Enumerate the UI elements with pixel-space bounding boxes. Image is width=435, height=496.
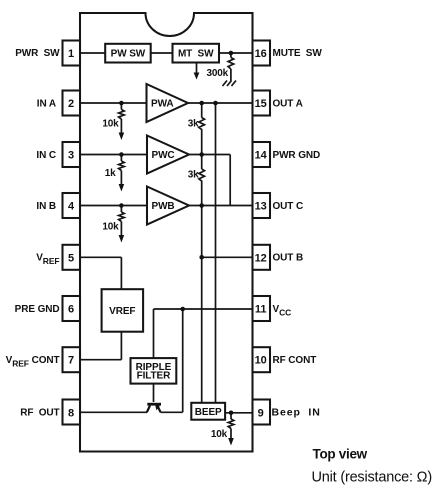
svg-text:3k: 3k xyxy=(188,119,199,130)
svg-text:10: 10 xyxy=(255,355,267,367)
svg-text:5: 5 xyxy=(68,252,74,264)
svg-text:MT SW: MT SW xyxy=(178,49,214,60)
svg-text:14: 14 xyxy=(255,150,268,162)
svg-text:PW SW: PW SW xyxy=(111,49,146,60)
svg-text:IN B: IN B xyxy=(36,201,56,212)
svg-text:VREF: VREF xyxy=(36,253,59,267)
svg-text:8: 8 xyxy=(68,407,74,419)
svg-text:BEEP: BEEP xyxy=(195,407,222,418)
svg-text:16: 16 xyxy=(255,48,267,60)
svg-text:Beep IN: Beep IN xyxy=(272,406,321,418)
svg-text:VREF CONT: VREF CONT xyxy=(6,355,60,369)
svg-text:VCC: VCC xyxy=(273,304,292,318)
svg-text:12: 12 xyxy=(255,252,267,264)
svg-text:6: 6 xyxy=(68,304,74,316)
svg-text:11: 11 xyxy=(255,304,267,316)
svg-text:300k: 300k xyxy=(207,68,229,79)
svg-text:PWR GND: PWR GND xyxy=(273,150,321,161)
svg-text:10k: 10k xyxy=(102,119,119,130)
svg-text:FILTER: FILTER xyxy=(137,371,172,382)
svg-text:10k: 10k xyxy=(211,429,228,440)
svg-text:PWA: PWA xyxy=(151,99,173,110)
svg-text:OUT B: OUT B xyxy=(273,253,304,264)
svg-text:RF OUT: RF OUT xyxy=(20,407,59,418)
svg-text:OUT A: OUT A xyxy=(273,98,303,109)
svg-text:1: 1 xyxy=(68,48,74,60)
svg-text:3k: 3k xyxy=(188,170,199,181)
svg-text:Top view: Top view xyxy=(313,447,368,462)
svg-text:VREF: VREF xyxy=(109,306,135,317)
svg-text:Unit (resistance: Ω): Unit (resistance: Ω) xyxy=(312,469,432,485)
svg-text:PWC: PWC xyxy=(152,150,175,161)
svg-text:3: 3 xyxy=(68,150,74,162)
svg-text:RF CONT: RF CONT xyxy=(273,355,317,366)
svg-text:9: 9 xyxy=(258,407,264,419)
svg-text:13: 13 xyxy=(255,201,267,213)
svg-text:2: 2 xyxy=(68,98,74,110)
svg-text:1k: 1k xyxy=(105,168,116,179)
svg-text:PWR SW: PWR SW xyxy=(15,48,60,59)
svg-text:15: 15 xyxy=(255,98,267,110)
svg-text:OUT C: OUT C xyxy=(273,201,304,212)
svg-text:7: 7 xyxy=(68,355,74,367)
svg-text:PWB: PWB xyxy=(152,201,175,212)
svg-text:10k: 10k xyxy=(102,221,119,232)
svg-text:IN A: IN A xyxy=(37,98,56,109)
svg-text:IN C: IN C xyxy=(36,150,56,161)
svg-text:MUTE SW: MUTE SW xyxy=(273,48,323,59)
svg-text:4: 4 xyxy=(68,201,75,213)
svg-text:PRE GND: PRE GND xyxy=(15,304,60,315)
